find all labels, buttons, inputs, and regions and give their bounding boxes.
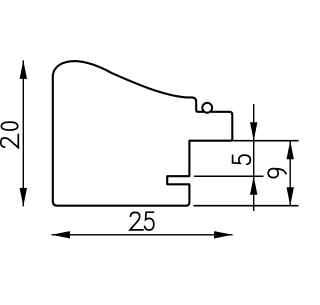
dimension line 20 (left vertical) bbox=[22, 60, 24, 206]
arrow down tip (20) bbox=[20, 188, 27, 207]
arrow up tip (9 top) bbox=[287, 141, 294, 160]
arrow left tip (25) bbox=[52, 231, 71, 238]
dimension line 5 (right vertical) bbox=[253, 104, 255, 211]
moulding profile outline bbox=[53, 61, 233, 206]
label 25 digit 2 bbox=[130, 212, 143, 230]
arrow down tip (5 top) bbox=[250, 122, 257, 141]
dimension line 25 (bottom horizontal) bbox=[52, 234, 233, 236]
extension line y=140.7 (rabbet ledge, for dims 5 and 9) bbox=[232, 140, 298, 142]
arrow up tip (20) bbox=[20, 60, 27, 79]
label 20 digit 2 bbox=[1, 135, 19, 148]
extension line y=176.2 (groove top, for dim 5) bbox=[194, 175, 264, 177]
label 20 digit 0 bbox=[1, 122, 17, 130]
arrow right tip (25) bbox=[214, 231, 233, 238]
label 25 digit 5 bbox=[145, 212, 154, 230]
extension line y=205.7 (bottom, for dim 9) bbox=[193, 205, 298, 207]
label 5 bbox=[233, 155, 251, 164]
label 9 bbox=[268, 169, 286, 178]
bead circle on profile bbox=[202, 103, 212, 113]
arrow down tip (9 bottom) bbox=[287, 187, 294, 206]
arrow up tip (5 bottom) bbox=[250, 176, 257, 195]
dimension line 9 (far right vertical) bbox=[289, 141, 291, 206]
